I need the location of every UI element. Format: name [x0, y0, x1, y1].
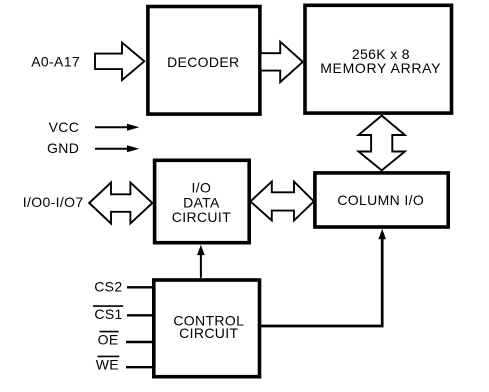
svg-text:I/O0-I/O7: I/O0-I/O7: [23, 194, 84, 210]
svg-text:CS2: CS2: [94, 278, 122, 294]
svg-text:DATA: DATA: [183, 194, 220, 210]
svg-text:CIRCUIT: CIRCUIT: [172, 209, 231, 225]
svg-text:VCC: VCC: [49, 119, 80, 135]
svg-text:DECODER: DECODER: [167, 54, 239, 70]
svg-text:WE: WE: [96, 356, 119, 372]
svg-text:I/O: I/O: [192, 179, 212, 195]
svg-text:CS1: CS1: [94, 306, 122, 322]
svg-text:GND: GND: [47, 140, 79, 156]
svg-text:COLUMN I/O: COLUMN I/O: [337, 192, 424, 208]
svg-text:CIRCUIT: CIRCUIT: [179, 325, 238, 341]
svg-text:OE: OE: [98, 331, 119, 347]
svg-text:A0-A17: A0-A17: [31, 54, 80, 70]
svg-text:MEMORY ARRAY: MEMORY ARRAY: [320, 60, 441, 76]
